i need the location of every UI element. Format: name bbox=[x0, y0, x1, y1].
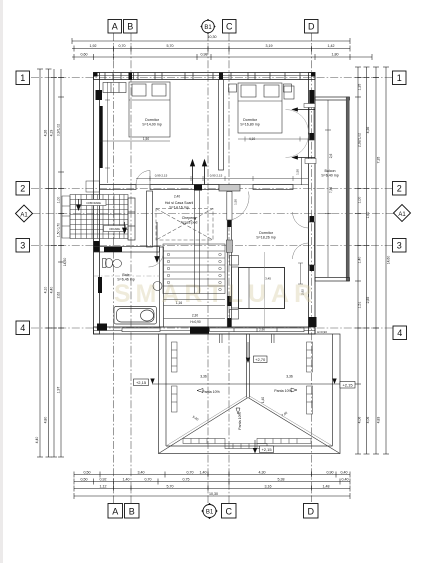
GROUP: bottom dimension chains bbox=[74, 472, 350, 500]
svg-text:1: 1 bbox=[397, 73, 402, 83]
svg-text:D: D bbox=[308, 22, 315, 32]
stairs treads bbox=[163, 244, 225, 294]
svg-text:S=6,46 mp: S=6,46 mp bbox=[117, 278, 134, 282]
level marker +2,15 bottom center bbox=[253, 440, 274, 454]
svg-text:0,50: 0,50 bbox=[81, 478, 88, 482]
svg-text:3,19: 3,19 bbox=[266, 44, 273, 48]
stairs east wall bbox=[227, 190, 231, 328]
svg-text:1,40: 1,40 bbox=[261, 397, 265, 403]
svg-text:+2,15: +2,15 bbox=[136, 380, 147, 385]
svg-text:14,60: 14,60 bbox=[63, 258, 67, 267]
svg-text:Dormitor: Dormitor bbox=[243, 118, 258, 122]
right wall balcony door frame bbox=[309, 104, 314, 140]
GROUP: right dimension chains bbox=[355, 67, 389, 454]
svg-text:A: A bbox=[112, 507, 118, 517]
svg-text:C: C bbox=[225, 507, 232, 517]
svg-text:4,10: 4,10 bbox=[44, 287, 48, 294]
svg-text:4,83: 4,83 bbox=[377, 417, 381, 424]
right dim line 4 bbox=[385, 67, 387, 454]
svg-text:4,19: 4,19 bbox=[50, 130, 54, 137]
svg-text:2: 2 bbox=[20, 184, 25, 194]
svg-text:1,00: 1,00 bbox=[358, 197, 362, 204]
page edge shading bbox=[0, 0, 3, 563]
GROUP: building outer walls bbox=[94, 73, 316, 335]
svg-text:Hol si Casa Scarii: Hol si Casa Scarii bbox=[165, 201, 194, 205]
svg-text:1: 1 bbox=[20, 73, 25, 83]
balcony label bbox=[321, 154, 338, 194]
bottom wall black pier mid bbox=[190, 327, 209, 334]
top wall black piers bbox=[94, 73, 316, 81]
svg-text:1,40: 1,40 bbox=[123, 478, 130, 482]
svg-text:1,92: 1,92 bbox=[90, 44, 97, 48]
label D bottom bbox=[304, 504, 319, 519]
label 1 right bbox=[393, 71, 407, 85]
svg-text:0,90 2,15: 0,90 2,15 bbox=[210, 174, 223, 178]
svg-text:+2,70: +2,70 bbox=[255, 357, 266, 362]
svg-text:0,70: 0,70 bbox=[145, 478, 152, 482]
stair central stringer bbox=[194, 190, 199, 294]
svg-text:1,00: 1,00 bbox=[57, 197, 61, 204]
level marker +2,70 center bbox=[246, 342, 267, 363]
bathroom sink 2 bbox=[153, 282, 162, 291]
svg-text:3,45: 3,45 bbox=[265, 277, 271, 281]
svg-text:1,42: 1,42 bbox=[328, 44, 335, 48]
svg-text:3: 3 bbox=[20, 241, 25, 251]
svg-text:D: D bbox=[307, 507, 314, 517]
svg-text:2,6: 2,6 bbox=[329, 154, 333, 159]
bath east / stairs west wall bbox=[160, 247, 164, 327]
svg-text:10,30: 10,30 bbox=[208, 35, 217, 39]
label B top bbox=[124, 20, 138, 34]
stairs walk line + arrow bbox=[155, 222, 159, 262]
bottom wall black corner piece bbox=[97, 324, 107, 331]
GROUP: interior walls bbox=[94, 80, 309, 328]
wardrobe bedroom1 bbox=[103, 83, 126, 93]
right wall door swing arc lower bbox=[293, 243, 309, 259]
right wall door swing arc top bbox=[286, 110, 309, 133]
bath north wall black segment bbox=[104, 247, 122, 252]
roof outer rectangle bbox=[159, 334, 341, 454]
svg-text:B1: B1 bbox=[206, 510, 214, 516]
roof bottom tile rows bbox=[183, 439, 311, 449]
svg-text:4,06: 4,06 bbox=[366, 417, 370, 424]
top dim line row2 bbox=[72, 48, 350, 50]
bed 1 (bedroom top-left) bbox=[129, 82, 170, 137]
svg-text:1,50 0,70: 1,50 0,70 bbox=[57, 223, 61, 237]
bedroom3 window leader arrow bbox=[293, 156, 316, 185]
left dim line 3 bbox=[53, 69, 55, 457]
svg-text:4: 4 bbox=[397, 328, 402, 338]
balcony bottom edge bbox=[315, 278, 350, 282]
svg-text:Panta 10%: Panta 10% bbox=[202, 390, 220, 394]
svg-text:0,99 2,15: 0,99 2,15 bbox=[155, 174, 168, 178]
svg-text:0,90: 0,90 bbox=[327, 471, 334, 475]
right dim line 2 bbox=[366, 67, 368, 454]
svg-text:14,60: 14,60 bbox=[387, 256, 391, 265]
label A top bbox=[108, 20, 122, 34]
svg-text:1,48: 1,48 bbox=[323, 485, 330, 489]
wall between bedroom1 and bedroom2 bbox=[219, 80, 224, 171]
label B bottom bbox=[125, 504, 140, 519]
svg-text:S=16,80 mp: S=16,80 mp bbox=[240, 123, 259, 127]
svg-text:C: C bbox=[226, 22, 233, 32]
hall north wall black post bbox=[194, 185, 202, 191]
svg-text:B: B bbox=[129, 507, 135, 517]
svg-text:2,85: 2,85 bbox=[366, 297, 370, 304]
svg-text:1,35: 1,35 bbox=[358, 84, 362, 91]
entry door leaf 2 bbox=[128, 198, 135, 240]
stair exit up-arrows bbox=[190, 160, 206, 185]
label 4 right bbox=[393, 326, 407, 340]
top wall window mullions bbox=[105, 73, 300, 80]
bed 2 (bedroom top-right) bbox=[229, 83, 292, 133]
label B1 bottom diamond bbox=[202, 504, 217, 519]
label A bottom bbox=[108, 504, 123, 519]
svg-text:4,10: 4,10 bbox=[249, 137, 255, 141]
stairs dim labels bbox=[176, 301, 201, 324]
roof tile band right column bbox=[307, 342, 313, 414]
left dim line 1 bbox=[39, 69, 41, 457]
GROUP: terrace roof plan (below building) bbox=[159, 334, 341, 454]
svg-text:5,40: 5,40 bbox=[192, 415, 200, 422]
balcony top edge bbox=[315, 97, 350, 100]
bottom wall window frame bbox=[210, 328, 305, 332]
bottom dim row3 bbox=[74, 488, 350, 490]
exterior entry stair block bbox=[70, 195, 128, 239]
axis C vertical bbox=[228, 33, 230, 503]
top wall bbox=[94, 73, 316, 80]
label C bottom bbox=[222, 504, 237, 519]
svg-text:7,40: 7,40 bbox=[281, 411, 289, 418]
svg-text:H=0,90: H=0,90 bbox=[317, 330, 327, 334]
hip diagonal right bbox=[248, 398, 340, 454]
svg-text:Panta 10%: Panta 10% bbox=[238, 411, 242, 429]
balcony rail right bbox=[346, 97, 349, 281]
GROUP: axes bbox=[31, 33, 394, 503]
axis 3 horizontal bbox=[31, 245, 392, 247]
roof tile band left column bbox=[172, 342, 178, 412]
label 4 left bbox=[16, 321, 30, 335]
svg-text:Acces pod: Acces pod bbox=[181, 221, 198, 225]
svg-text:1,80: 1,80 bbox=[332, 53, 339, 57]
stairs east wall black segments bbox=[228, 219, 232, 327]
svg-text:1,97: 1,97 bbox=[57, 387, 61, 394]
roof inner left edge bbox=[165, 334, 167, 446]
svg-text:Dormitor: Dormitor bbox=[259, 231, 274, 235]
bottom dim row1 bbox=[74, 474, 350, 476]
svg-text:0,70: 0,70 bbox=[119, 44, 126, 48]
balcony inner dim line bbox=[327, 100, 329, 277]
axis 1 horizontal bbox=[31, 77, 392, 79]
below-stairs landing bbox=[164, 300, 226, 319]
label A1 left diamond bbox=[16, 205, 33, 222]
svg-text:Baie: Baie bbox=[122, 273, 129, 277]
svg-text:1,12: 1,12 bbox=[100, 485, 107, 489]
svg-text:4: 4 bbox=[20, 323, 25, 333]
svg-text:4,06: 4,06 bbox=[358, 417, 362, 424]
svg-text:4,36: 4,36 bbox=[366, 127, 370, 134]
bathroom toilet bbox=[103, 258, 113, 267]
svg-text:3,16: 3,16 bbox=[265, 485, 272, 489]
roof inner right edge bbox=[332, 334, 334, 446]
bedroom2 interior dim line bbox=[238, 137, 309, 142]
roof inner bottom eave bbox=[166, 445, 333, 447]
left wall black chunk at bath corner bbox=[94, 241, 100, 252]
bottom wall window frame 2 bbox=[122, 328, 160, 332]
svg-text:5,70: 5,70 bbox=[167, 485, 174, 489]
svg-text:1,50: 1,50 bbox=[143, 137, 149, 141]
left wall window black bar bbox=[100, 106, 103, 168]
wall under top bedrooms (hall north wall) bbox=[100, 185, 137, 190]
svg-text:5,70: 5,70 bbox=[167, 44, 174, 48]
hip diagonal left bbox=[159, 398, 249, 454]
svg-text:1,60: 1,60 bbox=[366, 212, 370, 219]
svg-text:3: 3 bbox=[397, 241, 402, 251]
bottom dim row2 bbox=[74, 481, 350, 483]
svg-text:2,40: 2,40 bbox=[174, 195, 180, 199]
hall west wall bbox=[147, 191, 153, 247]
GROUP: balcony bbox=[315, 97, 350, 281]
bedroom1 interior dim line bbox=[100, 82, 171, 183]
svg-text:0,40: 0,40 bbox=[341, 471, 348, 475]
bathtub bbox=[114, 307, 157, 325]
svg-text:0,50: 0,50 bbox=[84, 471, 91, 475]
svg-text:4,26: 4,26 bbox=[44, 130, 48, 137]
svg-text:H=0,90: H=0,90 bbox=[190, 320, 201, 324]
small interior dims bbox=[155, 169, 327, 334]
bottom dim row4 overall bbox=[74, 495, 350, 497]
interior dim row above hall wall bbox=[136, 176, 308, 181]
label 1 left bbox=[16, 71, 30, 85]
axis B vertical bbox=[130, 33, 132, 503]
roof posts below bottom wall bbox=[220, 334, 275, 343]
svg-text:Panta 10%: Panta 10% bbox=[274, 389, 292, 393]
svg-text:0,92: 0,92 bbox=[100, 478, 107, 482]
svg-text:7,35: 7,35 bbox=[377, 157, 381, 164]
bottom wall bbox=[94, 327, 316, 334]
level marker +2,15 right bbox=[332, 379, 355, 389]
svg-text:Balcon: Balcon bbox=[325, 169, 336, 173]
svg-text:2,92/1,02: 2,92/1,02 bbox=[358, 133, 362, 147]
label B1 top diamond bbox=[201, 20, 215, 34]
axis D vertical bbox=[311, 33, 313, 502]
left entry canopy rects bbox=[62, 181, 100, 238]
bathroom sink bbox=[113, 260, 122, 268]
axis 2 horizontal bbox=[31, 188, 392, 190]
bed 3 (bedroom bottom-right) horizontal bbox=[239, 268, 285, 309]
svg-text:B1: B1 bbox=[204, 25, 212, 31]
right dim line 1 bbox=[357, 67, 359, 454]
ridge post vertical bbox=[246, 334, 248, 398]
bath label bbox=[117, 273, 134, 282]
svg-text:0,98: 0,98 bbox=[201, 53, 208, 57]
svg-text:B: B bbox=[127, 22, 133, 32]
svg-text:0,75: 0,75 bbox=[183, 478, 190, 482]
GROUP: top dimension chains bbox=[72, 38, 372, 60]
level line +2,15 horizontal bbox=[152, 383, 346, 385]
svg-text:1,50: 1,50 bbox=[296, 169, 300, 175]
left wall lower window black bar bbox=[98, 277, 102, 293]
svg-text:A1: A1 bbox=[20, 213, 28, 219]
svg-text:S=14,00 mp: S=14,00 mp bbox=[142, 123, 161, 127]
label C top bbox=[223, 20, 237, 34]
room labels bbox=[142, 118, 275, 240]
axis A vertical bbox=[113, 33, 115, 503]
label A1 right diamond bbox=[394, 205, 411, 222]
entry stair arrows bbox=[77, 199, 127, 233]
label D top bbox=[305, 20, 319, 34]
svg-text:2,90: 2,90 bbox=[259, 328, 265, 332]
svg-text:1,16: 1,16 bbox=[176, 301, 182, 305]
svg-text:4,40: 4,40 bbox=[35, 437, 39, 444]
left wall bbox=[94, 73, 100, 335]
svg-text:+2,15: +2,15 bbox=[261, 447, 272, 452]
label 3 right bbox=[393, 239, 407, 253]
top dim line overall bbox=[72, 40, 350, 42]
svg-text:4,80: 4,80 bbox=[44, 417, 48, 424]
svg-text:4,30: 4,30 bbox=[259, 471, 266, 475]
chepeng hatch dashed rect with X bbox=[156, 209, 213, 241]
GROUP: left dimension chains bbox=[37, 69, 64, 457]
section line A1-A1 bbox=[32, 213, 394, 215]
wardrobe bedroom2 bbox=[284, 86, 294, 99]
label 2 right bbox=[393, 182, 407, 196]
top dim line row3 bbox=[72, 56, 372, 58]
svg-text:URCARE: URCARE bbox=[109, 227, 120, 231]
svg-text:2,30: 2,30 bbox=[192, 314, 198, 318]
bed3 door arc bbox=[231, 192, 249, 221]
right wall lower door frame bbox=[309, 222, 315, 265]
right wall bbox=[309, 73, 316, 335]
svg-text:S=14,16 mp: S=14,16 mp bbox=[169, 206, 188, 210]
svg-text:A1: A1 bbox=[398, 212, 406, 218]
bed3 door leaf bbox=[227, 192, 232, 221]
svg-text:3,36: 3,36 bbox=[286, 375, 293, 379]
bottom-right wall black block bbox=[309, 317, 317, 327]
svg-text:2: 2 bbox=[397, 184, 402, 194]
svg-text:0,9/1,02: 0,9/1,02 bbox=[57, 124, 61, 136]
svg-text:1,50: 1,50 bbox=[234, 199, 238, 205]
svg-text:3,40: 3,40 bbox=[138, 471, 145, 475]
bath centerline dashed bbox=[94, 275, 160, 277]
right wall window bars bbox=[309, 90, 314, 271]
svg-text:0,60: 0,60 bbox=[81, 53, 88, 57]
left dim line 2 bbox=[48, 69, 50, 457]
svg-text:COBORARE: COBORARE bbox=[86, 201, 101, 205]
svg-text:0,70: 0,70 bbox=[187, 471, 194, 475]
svg-text:Dormitor: Dormitor bbox=[145, 118, 160, 122]
svg-text:10,30: 10,30 bbox=[209, 492, 218, 496]
svg-text:S=18,26 mp: S=18,26 mp bbox=[256, 236, 275, 240]
left dim line 4 bbox=[60, 69, 62, 457]
label 3 left bbox=[16, 239, 30, 253]
svg-text:3,36: 3,36 bbox=[200, 375, 207, 379]
right dim line 3 bbox=[375, 67, 377, 454]
hall doors arcs bbox=[136, 171, 150, 185]
svg-text:2,62: 2,62 bbox=[57, 292, 61, 299]
svg-text:7,36: 7,36 bbox=[329, 187, 333, 193]
panta labels bbox=[192, 375, 297, 430]
svg-text:4,40: 4,40 bbox=[50, 287, 54, 294]
svg-text:A: A bbox=[112, 22, 118, 32]
svg-text:1,40: 1,40 bbox=[200, 471, 207, 475]
tread number circles bbox=[167, 253, 221, 291]
svg-text:S M A R T L U A R: S M A R T L U A R bbox=[114, 280, 312, 308]
svg-text:1,40: 1,40 bbox=[358, 257, 362, 264]
bath north wall bbox=[94, 247, 160, 253]
svg-text:5,38: 5,38 bbox=[278, 478, 285, 482]
axis B1 vertical bbox=[207, 33, 209, 503]
level marker +2,15 left bbox=[134, 379, 155, 386]
svg-text:Chepeng: Chepeng bbox=[182, 216, 197, 220]
left wall top black block bbox=[96, 90, 103, 100]
svg-text:S=6,40 mp: S=6,40 mp bbox=[321, 174, 338, 178]
svg-text:1,51: 1,51 bbox=[358, 302, 362, 309]
svg-text:0,40: 0,40 bbox=[342, 478, 349, 482]
hall sliding door gray block bbox=[219, 185, 240, 192]
svg-text:+2,15: +2,15 bbox=[342, 383, 353, 388]
svg-text:2,92: 2,92 bbox=[301, 289, 305, 295]
axis 4 horizontal bbox=[31, 327, 393, 329]
label 2 left bbox=[16, 182, 30, 196]
